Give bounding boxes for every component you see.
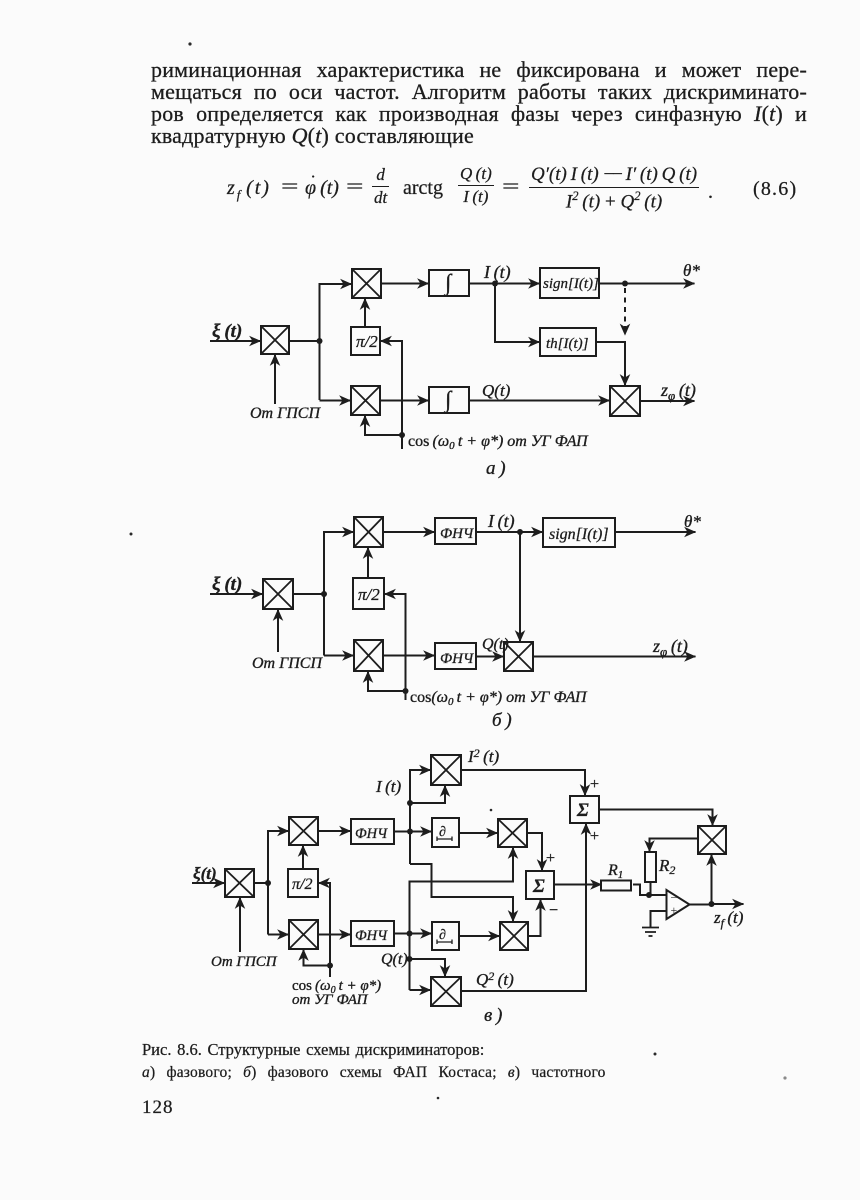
svg-text:ξ (t): ξ (t) [212,321,242,342]
svg-text:+: + [590,828,599,845]
svg-text:Q(t): Q(t) [482,636,509,653]
svg-text:+: + [546,850,555,867]
svg-text:I (t): I (t) [375,777,401,796]
svg-text:∫: ∫ [443,387,453,414]
svg-text:cos (ω0 t + φ*) от УГ ФАП: cos (ω0 t + φ*) от УГ ФАП [408,433,589,452]
svg-text:+: + [590,776,599,793]
svg-text:∂: ∂ [439,825,446,840]
svg-text:от УГ ФАП: от УГ ФАП [292,992,369,1008]
svg-text:в ): в ) [484,1005,502,1026]
svg-text:ФНЧ: ФНЧ [440,526,475,542]
svg-text:Q(t): Q(t) [381,951,408,968]
svg-text:Σ: Σ [576,800,589,821]
svg-text:θ*: θ* [684,512,701,531]
svg-text:−: − [549,902,558,919]
svg-text:sign[I(t)]: sign[I(t)] [549,526,609,543]
svg-text:zφ (t): zφ (t) [652,636,688,659]
svg-text:ФНЧ: ФНЧ [355,826,388,842]
svg-text:R1: R1 [607,862,623,881]
svg-text:Q2 (t): Q2 (t) [476,969,514,989]
svg-text:I2 (t): I2 (t) [467,746,499,766]
svg-text:+: + [671,903,678,917]
svg-text:∂: ∂ [439,928,446,943]
svg-text:б ): б ) [492,710,512,731]
svg-text:I (t): I (t) [483,262,511,283]
svg-text:ФНЧ: ФНЧ [355,928,388,944]
svg-text:ξ(t): ξ(t) [193,864,217,883]
svg-text:sign[I(t)]: sign[I(t)] [543,276,599,292]
svg-text:θ*: θ* [683,261,700,280]
svg-text:I (t): I (t) [487,511,515,532]
svg-text:π/2: π/2 [358,585,380,604]
svg-text:а ): а ) [486,458,506,479]
svg-text:Σ: Σ [532,876,545,897]
svg-text:ξ (t): ξ (t) [212,574,242,595]
svg-text:th[I(t)]: th[I(t)] [546,336,589,352]
svg-text:ФНЧ: ФНЧ [440,651,475,667]
svg-text:От ГПСП: От ГПСП [252,655,323,672]
svg-text:От ГПСП: От ГПСП [250,405,321,422]
svg-text:От ГПСП: От ГПСП [211,954,278,970]
svg-text:π/2: π/2 [292,876,312,893]
svg-text:zφ (t): zφ (t) [660,380,696,403]
svg-text:R2: R2 [658,856,675,877]
svg-text:Q(t): Q(t) [482,381,511,400]
svg-text:∫: ∫ [443,270,453,297]
svg-text:cos(ω0 t + φ*) от УГ ФАП: cos(ω0 t + φ*) от УГ ФАП [410,689,588,708]
svg-text:π/2: π/2 [356,332,378,351]
svg-text:zf (t): zf (t) [713,908,744,930]
